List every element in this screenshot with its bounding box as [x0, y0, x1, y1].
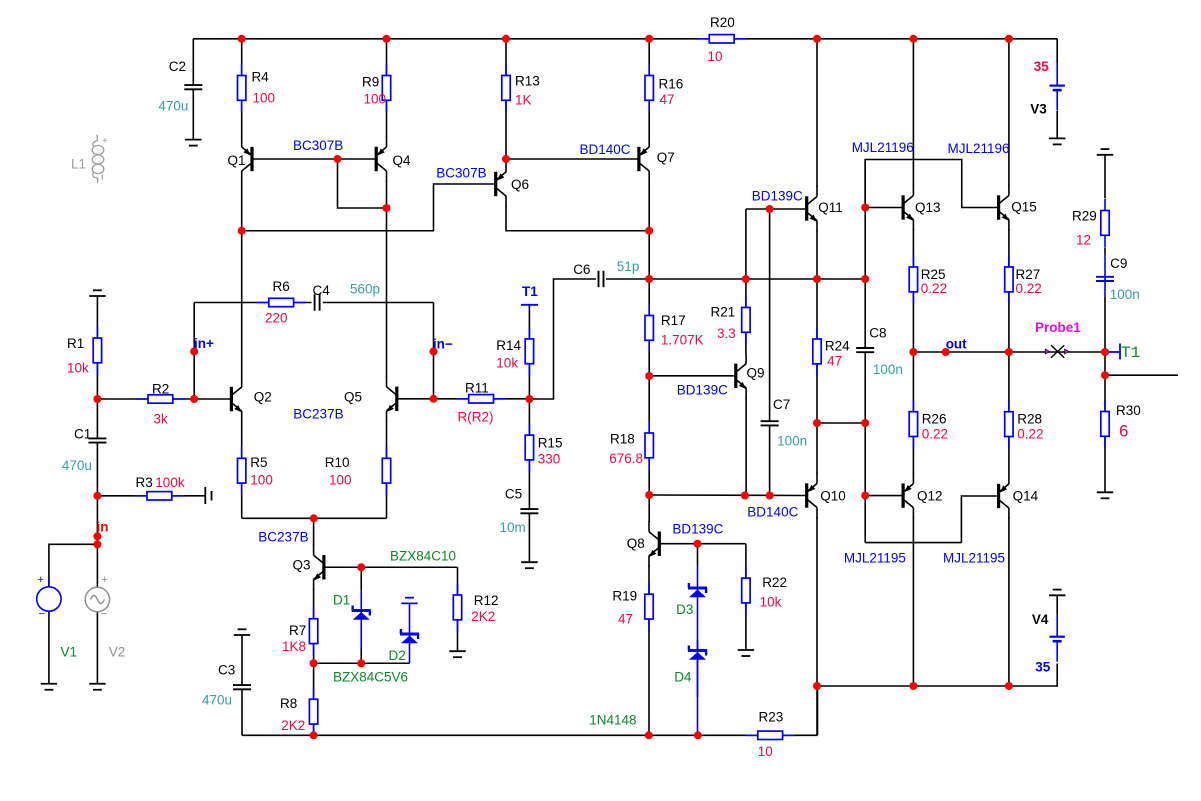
svg-text:V1: V1: [61, 644, 78, 659]
svg-text:R30: R30: [1116, 403, 1141, 418]
svg-text:Q4: Q4: [393, 153, 412, 168]
value C3 470u: [202, 693, 232, 708]
wire V3 to ground: [1056, 111, 1058, 138]
wire R7R8 column: [313, 663, 315, 735]
wire Q11 base row: [746, 208, 807, 210]
wire C2 top stub: [192, 39, 194, 85]
capacitor C6: [573, 262, 603, 287]
wire R17 to Q9 base: [649, 375, 736, 377]
capacitor C8: [856, 325, 886, 352]
label V1: [61, 644, 78, 659]
svg-text:T1: T1: [1121, 344, 1140, 362]
wire comp node column lower: [864, 352, 866, 542]
resistor R4: [238, 64, 270, 113]
svg-text:47: 47: [618, 611, 633, 626]
value C6 51p: [617, 259, 640, 274]
svg-text:3.3: 3.3: [717, 326, 736, 341]
svg-text:R19: R19: [612, 589, 637, 604]
inductor L1: [92, 135, 108, 184]
capacitor C4: [313, 283, 331, 311]
svg-text:R25: R25: [921, 267, 946, 282]
resistor R20: [697, 15, 746, 43]
wire T1 to R14: [528, 305, 530, 399]
resistor R24: [813, 327, 850, 376]
wire R15 to C5: [528, 399, 530, 509]
value R7 1K8: [282, 639, 306, 654]
diode D2: [400, 598, 419, 664]
label D1: [333, 593, 350, 608]
wire C7 bottom: [769, 426, 771, 496]
svg-text:R5: R5: [250, 455, 267, 470]
wire C7 top: [769, 209, 771, 421]
svg-text:BD140C: BD140C: [747, 505, 798, 520]
value C7 100n: [777, 434, 807, 449]
value R30 6: [1119, 422, 1128, 441]
ground under V1: [41, 684, 57, 690]
wire C2 to ground: [192, 89, 194, 139]
svg-text:Q9: Q9: [747, 366, 765, 381]
label BC307B Q6: [436, 166, 486, 181]
value R13 1K: [515, 93, 532, 108]
wire in- column: [433, 303, 435, 399]
wire C1 column: [96, 399, 98, 496]
value R28 0.22: [1017, 426, 1043, 441]
svg-text:D1: D1: [333, 593, 350, 608]
svg-text:R1: R1: [67, 336, 84, 351]
terminal T1 output: [1105, 344, 1120, 360]
wire R13 column: [505, 39, 507, 163]
svg-text:R27: R27: [1016, 267, 1041, 282]
wire Q14 collector: [1008, 517, 1010, 686]
resistor R7: [289, 607, 318, 656]
label MJL21196 Q13: [852, 140, 914, 155]
svg-text:Q15: Q15: [1011, 200, 1037, 215]
label BD139C Q8: [672, 522, 723, 537]
svg-text:BD139C: BD139C: [672, 522, 723, 537]
transistor Q15: [997, 185, 1037, 230]
wire R26 column: [912, 352, 914, 474]
label BC307B Q1 Q4: [293, 138, 343, 153]
resistor R30: [1101, 400, 1141, 449]
svg-text:220: 220: [265, 311, 288, 326]
transistor Q2: [230, 376, 272, 421]
svg-text:330: 330: [538, 451, 561, 466]
svg-text:Q14: Q14: [1013, 488, 1039, 503]
svg-text:C1: C1: [74, 427, 91, 442]
label Probe1: [1035, 320, 1081, 335]
ground under R30: [1097, 492, 1113, 498]
svg-text:100: 100: [250, 472, 273, 487]
value R29 12: [1076, 233, 1091, 248]
value V4 35: [1035, 660, 1051, 675]
wire comp node column upper: [864, 160, 866, 349]
value R1 10k: [67, 360, 89, 375]
resistor R1: [67, 326, 102, 375]
wire R19 column: [648, 565, 650, 735]
svg-text:C8: C8: [869, 325, 886, 340]
value R18 676.8: [609, 451, 643, 466]
svg-text:V3: V3: [1030, 101, 1047, 116]
terminal T1 tap: [521, 304, 538, 306]
wire C9 to T1 node: [1104, 297, 1106, 352]
wire C6 to comp node: [606, 278, 865, 280]
label V2: [109, 644, 126, 659]
resistor R28: [1005, 400, 1042, 449]
wire V2 to ground: [96, 612, 98, 684]
svg-text:47: 47: [827, 354, 842, 369]
svg-text:Q13: Q13: [915, 200, 941, 215]
svg-text:−: −: [101, 608, 107, 620]
resistor R13: [502, 64, 540, 113]
svg-text:MJL21196: MJL21196: [852, 140, 914, 155]
resistor R11: [457, 381, 506, 404]
capacitor C3: [218, 663, 251, 690]
voltage source V2: [85, 574, 109, 620]
wire tail to Q3 collector: [313, 518, 315, 545]
resistor R27: [1005, 255, 1041, 304]
svg-text:D3: D3: [676, 602, 693, 617]
wire C5 to ground: [528, 513, 530, 562]
svg-text:Q12: Q12: [917, 488, 943, 503]
value V3 35: [1034, 59, 1050, 74]
svg-text:BC307B: BC307B: [293, 138, 343, 153]
transistor Q7: [637, 136, 674, 181]
resistor R5: [238, 446, 268, 495]
wire Q13 base: [865, 207, 903, 209]
transistor Q3: [293, 545, 326, 590]
svg-text:100: 100: [364, 91, 387, 106]
svg-text:560p: 560p: [350, 282, 380, 297]
value R5 100: [250, 472, 273, 487]
label BC237B Q3: [258, 530, 308, 545]
svg-text:C7: C7: [773, 397, 790, 412]
wire Q3 base row: [324, 566, 458, 568]
wire V4 top stub: [1056, 595, 1058, 615]
svg-text:100n: 100n: [1110, 287, 1140, 302]
wire R12 column: [457, 567, 459, 651]
resistor R29: [1072, 199, 1109, 248]
wire D3 D4 stub top: [697, 544, 699, 566]
svg-text:R29: R29: [1072, 209, 1097, 224]
value C2 470u: [158, 98, 188, 113]
value R25 0.22: [921, 281, 947, 296]
svg-text:R26: R26: [922, 412, 947, 427]
wire R29 C9 gap: [1104, 248, 1106, 255]
value R22 10k: [760, 594, 782, 609]
value R21 3.3: [717, 326, 736, 341]
resistor R21: [711, 296, 751, 345]
svg-text:L1: L1: [71, 157, 86, 172]
wire R28 column: [1008, 352, 1010, 474]
svg-text:10: 10: [758, 744, 773, 759]
label BC237B Q2 Q5: [293, 406, 343, 421]
wire bottom rail: [242, 686, 818, 735]
svg-text:Probe1: Probe1: [1035, 320, 1081, 335]
svg-text:676.8: 676.8: [609, 451, 643, 466]
svg-text:470u: 470u: [158, 98, 188, 113]
svg-text:+: +: [38, 574, 44, 586]
svg-text:0.22: 0.22: [1016, 281, 1042, 296]
wire R21 Q9 collector column: [745, 209, 747, 354]
svg-text:Q8: Q8: [627, 536, 645, 551]
wire D1 lower stub: [360, 649, 362, 664]
svg-text:12: 12: [1076, 233, 1091, 248]
diode D4: [688, 640, 707, 731]
label T1 output: [1121, 344, 1140, 362]
svg-text:MJL21195: MJL21195: [943, 551, 1005, 566]
resistor R14: [496, 327, 533, 376]
wire Q12 Q14 base link: [865, 496, 998, 543]
wire R6 C4 row: [194, 302, 433, 304]
ground under V2: [89, 684, 105, 690]
value R19 47: [618, 611, 633, 626]
ground under C2: [185, 140, 201, 146]
svg-text:R16: R16: [659, 77, 684, 92]
svg-text:BD139C: BD139C: [677, 382, 728, 397]
wire D1 upper stub: [360, 567, 362, 590]
svg-text:+: +: [102, 136, 108, 147]
inverted ground above C3: [234, 629, 250, 635]
svg-text:Q10: Q10: [820, 488, 846, 503]
svg-text:C4: C4: [313, 283, 331, 298]
svg-text:1.707K: 1.707K: [661, 333, 704, 348]
svg-text:10k: 10k: [496, 356, 518, 371]
svg-text:Q2: Q2: [254, 389, 272, 404]
svg-text:2K2: 2K2: [471, 609, 495, 624]
wire top supply rail: [193, 38, 1057, 40]
value R12 2K2: [471, 609, 495, 624]
wire Q9 emitter: [745, 397, 747, 495]
resistor R23: [746, 709, 795, 739]
probe Probe1: [1045, 345, 1068, 358]
label D3: [676, 602, 693, 617]
svg-text:C9: C9: [1110, 256, 1127, 271]
svg-text:1K8: 1K8: [282, 639, 306, 654]
svg-text:MJL21196: MJL21196: [948, 141, 1010, 156]
label BD140C Q7: [580, 142, 631, 157]
svg-text:10: 10: [708, 49, 723, 64]
wire output stub right: [1105, 374, 1178, 376]
svg-text:V2: V2: [109, 644, 126, 659]
value C8 100n: [873, 362, 903, 377]
wire Q13 collector: [912, 39, 914, 186]
resistor R26: [909, 400, 946, 449]
wire R29 top stub: [1104, 155, 1106, 198]
wire Q11 collector: [816, 39, 818, 187]
resistor R18: [610, 421, 653, 470]
value R8 2K2: [281, 718, 305, 733]
node in: [97, 520, 109, 535]
svg-text:R8: R8: [280, 696, 297, 711]
value R17 1.707K: [661, 333, 704, 348]
wire Q12 collector: [912, 517, 914, 686]
wire in column: [96, 496, 98, 588]
wire Q2 emitter / R5: [241, 421, 243, 519]
svg-text:35: 35: [1034, 59, 1050, 74]
svg-text:0.22: 0.22: [1017, 426, 1043, 441]
wire Q11 emitter to Q10: [816, 230, 818, 474]
wire R9 column: [386, 39, 388, 138]
wire Q8 base row: [659, 543, 746, 545]
svg-text:BC307B: BC307B: [436, 166, 486, 181]
wire Q6 collector link: [506, 206, 649, 231]
wire lower rail to V4: [817, 664, 1057, 687]
svg-text:35: 35: [1035, 660, 1051, 675]
capacitor C9 (blue): [1096, 254, 1127, 297]
svg-text:out: out: [946, 336, 967, 351]
svg-text:0.22: 0.22: [922, 426, 948, 441]
svg-text:Q3: Q3: [293, 558, 311, 573]
resistor R19: [612, 582, 653, 631]
capacitor C5: [505, 487, 539, 514]
wire Q12 base: [865, 495, 903, 497]
svg-text:BZX84C5V6: BZX84C5V6: [333, 669, 408, 684]
resistor R12: [453, 583, 498, 632]
svg-text:BD139C: BD139C: [752, 188, 803, 203]
svg-text:R17: R17: [661, 313, 686, 328]
label BZX84C5V6: [333, 669, 408, 684]
svg-text:R11: R11: [465, 381, 489, 396]
svg-text:R28: R28: [1017, 412, 1042, 427]
wire tail rail: [242, 517, 387, 519]
resistor R3: [135, 475, 184, 500]
value R16 47: [660, 92, 675, 107]
wire Q13 emitter R25 out: [912, 229, 914, 352]
wire R16 column: [648, 39, 650, 138]
wire R2 row: [97, 398, 231, 400]
svg-text:3k: 3k: [154, 412, 169, 427]
svg-text:R15: R15: [538, 436, 563, 451]
wire feedback corner to C6: [529, 279, 596, 399]
svg-text:Q1: Q1: [228, 153, 246, 168]
capacitor C7: [761, 397, 791, 425]
wire Q1 collector to node A: [241, 180, 243, 230]
wire C3 bottom: [241, 689, 243, 735]
label D4: [674, 669, 692, 684]
inverted ground above V4: [1049, 590, 1065, 596]
svg-text:10k: 10k: [760, 594, 782, 609]
wire Q15 collector: [1008, 39, 1010, 186]
svg-text:C3: C3: [218, 663, 235, 678]
svg-text:C5: C5: [505, 487, 522, 502]
svg-text:R6: R6: [273, 279, 290, 294]
wire Q13 Q15 base link: [865, 160, 998, 208]
svg-text:BC237B: BC237B: [293, 406, 343, 421]
value C9 100n: [1110, 287, 1140, 302]
value R15 330: [538, 451, 561, 466]
wire Q5 emitter: [386, 421, 388, 459]
wire T1 node to tap: [1104, 352, 1106, 375]
value R27 0.22: [1016, 281, 1042, 296]
wire R22 column: [745, 544, 747, 650]
resistor R8: [280, 687, 318, 736]
svg-text:R10: R10: [325, 455, 350, 470]
svg-text:R23: R23: [759, 709, 784, 724]
value C1 470u: [62, 458, 92, 473]
svg-text:MJL21195: MJL21195: [844, 551, 906, 566]
svg-text:T1: T1: [522, 284, 538, 299]
svg-text:Q6: Q6: [511, 177, 529, 192]
diode D1: [352, 591, 371, 649]
svg-text:R9: R9: [362, 75, 379, 90]
svg-text:BC237B: BC237B: [258, 530, 308, 545]
label T1 tap: [522, 284, 538, 299]
resistor R10: [325, 446, 391, 495]
svg-text:R20: R20: [710, 15, 735, 30]
battery V4: [1050, 615, 1065, 662]
resistor R9: [362, 64, 391, 113]
svg-text:47: 47: [660, 92, 675, 107]
svg-text:BD140C: BD140C: [580, 142, 631, 157]
svg-text:R(R2): R(R2): [458, 409, 494, 424]
resistor R25: [909, 255, 945, 304]
transistor Q11: [805, 186, 843, 231]
wire node B row: [314, 662, 410, 664]
svg-text:D2: D2: [389, 648, 406, 663]
svg-text:470u: 470u: [62, 458, 92, 473]
svg-text:100: 100: [253, 91, 276, 106]
capacitor C1: [74, 427, 106, 443]
value R24 47: [827, 354, 842, 369]
value R3 100k: [155, 475, 185, 490]
wire V1 branch: [49, 544, 98, 587]
transistor Q5: [344, 376, 398, 421]
label L1: [71, 157, 86, 172]
wire Q2 collector: [241, 231, 243, 378]
transistor Q10: [805, 473, 846, 518]
wire Q1 Q4 base row: [252, 158, 376, 160]
transistor Q6: [494, 161, 529, 206]
wire Q3 emitter to R7: [313, 589, 315, 663]
wire V3 branch corner: [1056, 39, 1058, 63]
label BD139C Q11: [752, 188, 803, 203]
wire R10 bottom: [386, 483, 388, 518]
ground under R22: [738, 650, 754, 656]
resistor R6: [257, 279, 306, 307]
wire R4 column: [241, 39, 243, 138]
svg-text:Q11: Q11: [818, 200, 843, 215]
label MJL21195 Q12: [844, 551, 906, 566]
svg-text:R3: R3: [136, 475, 153, 490]
svg-text:1N4148: 1N4148: [589, 712, 636, 727]
wire out row: [913, 351, 1105, 353]
label BD139C Q9: [677, 382, 728, 397]
value C5 10m: [500, 520, 526, 535]
wire Q10 collector: [816, 517, 818, 735]
svg-text:1K: 1K: [515, 93, 532, 108]
node out: [946, 336, 967, 351]
svg-text:R18: R18: [610, 432, 635, 447]
svg-text:C6: C6: [573, 262, 590, 277]
wire R24 C8 bottom link: [817, 422, 865, 424]
label 1N4148: [589, 712, 636, 727]
value R2 3k: [154, 412, 169, 427]
value C4 560p: [350, 282, 380, 297]
capacitor C2: [169, 59, 203, 89]
ground under C5: [521, 562, 537, 568]
transistor Q9: [734, 353, 764, 398]
resistor R17: [645, 304, 686, 353]
wire V1 to ground: [48, 611, 50, 684]
label MJL21196 Q15: [948, 141, 1010, 156]
svg-text:100k: 100k: [155, 475, 185, 490]
svg-text:Q7: Q7: [657, 150, 675, 165]
ground under V3: [1049, 138, 1065, 144]
wire D3 D4 stub bottom: [697, 731, 699, 735]
node in-: [433, 336, 453, 351]
ground under R12: [449, 651, 465, 657]
wire in+ column: [193, 303, 195, 400]
